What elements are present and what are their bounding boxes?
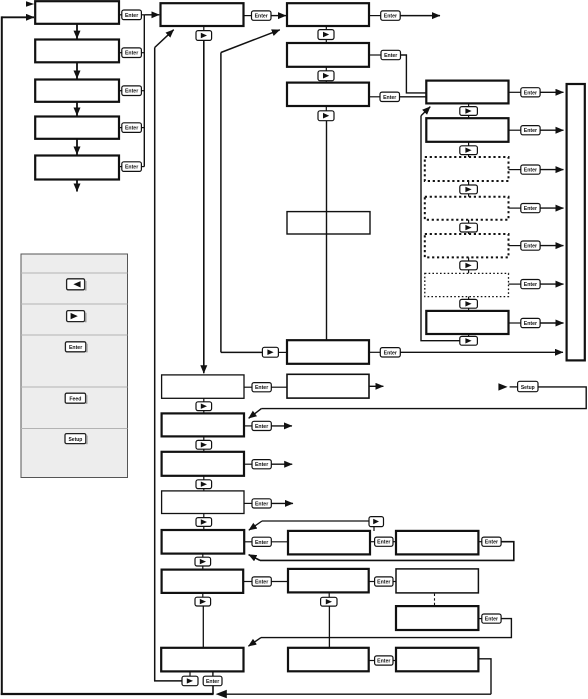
wire menuA enter to box menuA2: [271, 386, 287, 388]
button right col4-1: [460, 103, 478, 118]
button Enter I1: [369, 577, 396, 586]
svg-text:Enter: Enter: [125, 126, 138, 132]
svg-text:Enter: Enter: [255, 424, 268, 430]
box H1: [288, 531, 370, 555]
svg-text:Enter: Enter: [524, 90, 537, 96]
arrow diagonal into box menuB: [249, 409, 262, 419]
button Enter menuE: [244, 537, 271, 546]
wire menuF enter to box I1: [271, 581, 288, 583]
box col3-3: [287, 83, 369, 106]
svg-text:Enter: Enter: [255, 14, 268, 20]
button right menuA: [196, 398, 212, 413]
wire J2 to bottom return: [479, 659, 491, 694]
button Enter menuB: [244, 421, 271, 430]
wire col2 right-btn down into box menuA: [203, 40, 205, 373]
svg-text:Setup: Setup: [68, 437, 82, 443]
box col4-7: [426, 311, 508, 334]
box col1-1: [35, 1, 119, 24]
arrow col4-2 to tall box: [540, 129, 563, 131]
box col4-3 dotted: [425, 157, 509, 181]
legend button Feed: [65, 393, 87, 404]
arrow col3-1 exit right: [400, 15, 440, 17]
button Enter col4-6: [509, 280, 541, 289]
wire Setup return path: [261, 387, 586, 409]
arrow col1-3 down: [76, 102, 78, 116]
button Enter I3: [478, 614, 501, 623]
button Enter col4-3: [509, 165, 541, 174]
svg-text:Enter: Enter: [524, 206, 537, 212]
button Enter col1-2: [119, 48, 144, 58]
start marker arrow: [26, 1, 34, 7]
arrow diagonal into box menuG top-right: [248, 638, 261, 647]
button Enter col1-5: [119, 162, 144, 172]
box col1-2: [35, 40, 119, 63]
arrowhead before Setup: [498, 383, 507, 390]
legend button Enter: [65, 342, 87, 353]
wire menuE enter to box H1: [271, 541, 288, 543]
svg-text:Enter: Enter: [485, 617, 498, 623]
wire H2 return path: [260, 542, 514, 561]
button Enter col1-1: [119, 10, 144, 20]
box col4-5 dotted: [425, 234, 509, 257]
wire I3 return path: [261, 619, 511, 638]
tall box right: [567, 84, 585, 360]
svg-text:Enter: Enter: [383, 95, 396, 101]
button right col4-2: [460, 142, 478, 157]
box J2: [396, 648, 478, 672]
svg-text:Enter: Enter: [384, 350, 397, 356]
button right col4-7: [460, 334, 478, 345]
box I3: [396, 606, 478, 630]
box col1-4: [35, 117, 119, 139]
button Enter menuD: [244, 499, 271, 508]
button Enter col4-1: [509, 88, 541, 97]
arrow col2-1 enter to col3-1: [271, 15, 286, 17]
button right col4-3: [460, 181, 478, 197]
arrow menuD exit right: [271, 502, 293, 504]
svg-text:Enter: Enter: [255, 385, 268, 391]
legend divider 5: [21, 428, 128, 430]
arrow col4-7 to tall box: [540, 322, 563, 324]
arrow col1-2 down: [76, 62, 78, 78]
arrow menuC exit right: [271, 463, 292, 465]
button right col3-3: [318, 106, 334, 121]
button right col2-1: [196, 26, 212, 40]
button Enter menuF: [243, 577, 271, 586]
arrow col1-1 down: [76, 24, 78, 39]
button right col3-1: [318, 26, 334, 43]
wire bus to col2 box1 arrow: [144, 14, 159, 16]
box J1: [288, 648, 369, 672]
wire I1 btn down to J1: [328, 606, 330, 648]
legend divider 1: [21, 272, 128, 274]
box col1-3: [35, 80, 119, 102]
wire col3-3 down through middle box: [326, 121, 328, 340]
box menuG: [161, 648, 243, 672]
svg-text:Enter: Enter: [125, 51, 138, 57]
legend panel: [21, 254, 128, 478]
button right col4-6: [460, 297, 478, 311]
arrow diagonal into box menuE top: [249, 521, 262, 530]
button Enter col3-1: [369, 11, 400, 20]
svg-text:Enter: Enter: [377, 659, 390, 665]
wire col3-2 enter to col4-1: [401, 55, 427, 93]
box col4-4 dotted: [425, 197, 509, 220]
arrowhead bottom return: [216, 690, 227, 699]
arrow col4-3 to tall box: [540, 169, 563, 171]
button Enter col4-4: [509, 204, 541, 213]
arrow col4-1 to tall box: [540, 91, 563, 93]
svg-text:Enter: Enter: [524, 128, 537, 134]
button Enter below menuG: [203, 671, 222, 694]
svg-text:Enter: Enter: [255, 540, 268, 546]
wire into Setup button: [510, 386, 518, 388]
button right menuE: [195, 554, 211, 570]
button Enter col3-4: [369, 348, 400, 357]
button Enter J1: [369, 656, 396, 665]
button right menuD: [196, 514, 212, 531]
button right menuF: [195, 593, 211, 606]
arrow col1-4 down: [76, 139, 78, 155]
box col4-6 fine dotted: [425, 273, 509, 296]
legend divider 2: [21, 303, 128, 305]
arrow diagonal loop into col4-1: [421, 107, 430, 116]
button right menuC: [196, 476, 212, 491]
legend button Setup: [65, 434, 88, 445]
arrow col4-6 to tall box: [540, 283, 563, 285]
button Enter col4-5: [509, 241, 541, 250]
button Enter menuA: [244, 383, 271, 392]
button Enter col3-2: [369, 50, 401, 59]
button Enter col1-4: [119, 123, 144, 133]
button right-left col3-4: [262, 347, 287, 357]
svg-text:Enter: Enter: [255, 462, 268, 468]
svg-text:Enter: Enter: [255, 580, 268, 586]
legend button left-arrow: [67, 279, 87, 291]
svg-text:Enter: Enter: [125, 165, 138, 171]
wire col4 loop left: [421, 116, 460, 341]
svg-text:Enter: Enter: [384, 14, 397, 20]
box col3-2: [287, 43, 369, 67]
button Enter col4-2: [509, 126, 541, 135]
svg-text:Enter: Enter: [524, 282, 537, 288]
button right col3-2: [318, 67, 334, 83]
svg-text:Enter: Enter: [125, 89, 138, 95]
wire dashed I2 to I3: [434, 594, 436, 606]
button Enter menuC: [244, 460, 271, 469]
svg-text:Enter: Enter: [255, 501, 268, 507]
box col4-2: [426, 118, 508, 142]
button Enter H1: [370, 537, 396, 546]
box col2-1: [161, 3, 244, 26]
box col3-1: [287, 3, 369, 26]
svg-text:Enter: Enter: [377, 580, 390, 586]
wire col1 enter bus vertical: [143, 15, 145, 167]
arrow diagonal loop into col2-1: [155, 30, 174, 48]
svg-text:Feed: Feed: [69, 396, 81, 402]
box col1-5: [35, 156, 119, 180]
arrow col3-4 enter to tall box: [400, 351, 563, 353]
box I2: [396, 569, 478, 593]
box menuD: [162, 491, 244, 514]
svg-text:Enter: Enter: [377, 540, 390, 546]
box col3 middle pass-through: [287, 212, 370, 234]
button right col4-4: [460, 220, 478, 234]
wire loop left of col2 vertical: [154, 48, 156, 681]
button right col4-5: [460, 257, 478, 273]
box col3-4: [287, 340, 369, 364]
svg-text:Enter: Enter: [69, 345, 82, 351]
arrow col4-5 to tall box: [540, 245, 563, 247]
wire loop bottom into right-btn G: [154, 680, 182, 682]
button Enter col3-3: [369, 92, 400, 101]
button right rowH: [369, 517, 384, 531]
arrow diagonal into box menuE bottom-right: [249, 555, 260, 561]
button right menuB: [196, 436, 212, 451]
box menuB: [162, 413, 244, 436]
button Setup flow: [518, 381, 538, 391]
svg-text:Enter: Enter: [206, 679, 219, 685]
arrow menuB exit right: [271, 425, 292, 427]
legend divider 4: [21, 386, 128, 388]
box col4-1: [426, 81, 508, 104]
svg-text:Setup: Setup: [521, 385, 535, 391]
wire col3-3 enter to col4-1: [400, 96, 427, 98]
button Enter col1-3: [119, 86, 144, 96]
wire loop col3 vertical: [220, 53, 222, 353]
wire menuF btn down to menuG: [202, 606, 204, 648]
box menuA: [162, 375, 244, 398]
svg-text:Enter: Enter: [524, 321, 537, 327]
arrow col4-4 to tall box: [540, 207, 563, 209]
box I1: [288, 569, 369, 593]
button Enter col2-1: [244, 11, 272, 20]
wire big loop into box col1-1: [2, 16, 34, 18]
svg-text:Enter: Enter: [524, 168, 537, 174]
arrow diagonal loop into col3-1: [221, 30, 280, 53]
wire row H loop to right-btn: [262, 520, 369, 522]
legend button right-arrow: [67, 311, 87, 323]
wire big loop left vertical: [1, 16, 3, 695]
svg-text:Enter: Enter: [384, 53, 397, 59]
wire big loop bottom thick segment: [1, 693, 214, 695]
box menuF: [162, 570, 244, 593]
wire bottom return thin with arrow left: [227, 693, 492, 695]
arrow col1-5 down: [76, 180, 78, 192]
svg-text:Enter: Enter: [125, 13, 138, 19]
button right I1: [321, 592, 337, 606]
box menuC: [162, 452, 244, 476]
legend divider 3: [21, 334, 128, 336]
arrow menuA2 exit right: [369, 385, 383, 387]
wire loop col3 bottom to right-btn: [221, 351, 263, 353]
button Enter col4-7: [509, 318, 541, 327]
svg-text:Enter: Enter: [485, 540, 498, 546]
box menuE: [162, 530, 245, 554]
button Enter H2: [478, 537, 501, 546]
box menuA2: [287, 374, 369, 398]
box H2: [396, 531, 478, 555]
button right-btn below menuG: [182, 671, 198, 685]
svg-text:Enter: Enter: [524, 244, 537, 250]
